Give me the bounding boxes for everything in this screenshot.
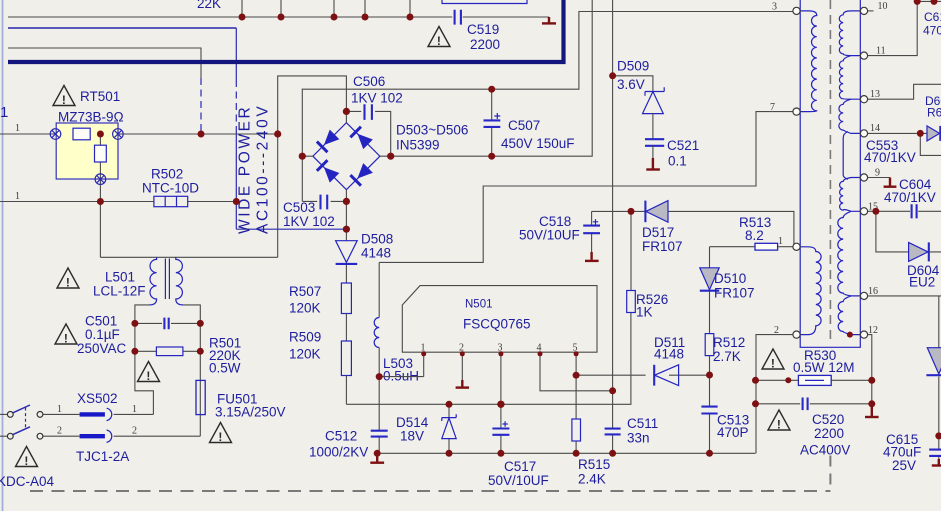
svg-text:22K: 22K (197, 0, 221, 11)
ground (C512 below GND rail) (370, 453, 384, 462)
node: pin 15 branch (872, 208, 879, 215)
inductor L503 0.5uH (374, 262, 419, 383)
node: bridge bottom / C503 (343, 198, 350, 205)
switch S1a (mains switch upper pole) (0, 405, 43, 417)
resistor R507 120K (289, 283, 351, 341)
thermistor RT501 MZ73B-9 (yellow block) (50, 89, 123, 202)
diode D517 FR107 (642, 201, 683, 254)
node: pin 14 branch (917, 130, 924, 137)
svg-text:11: 11 (876, 46, 886, 57)
pin 10 terminal with stub (860, 1, 887, 15)
node: bridge left (299, 153, 306, 160)
svg-text:25V: 25V (892, 458, 916, 473)
svg-text:D517: D517 (642, 225, 674, 240)
node: R501 row (131, 348, 138, 355)
svg-text:2.7K: 2.7K (713, 349, 741, 364)
warning triangle (switch) (16, 447, 38, 468)
wire: stub up from junction x=242 (241, 0, 243, 17)
svg-text:NTC-10D: NTC-10D (142, 181, 199, 196)
capacitor C518 50V/10UF (519, 211, 600, 257)
fuse FU501 3.15A/250V (196, 380, 286, 419)
svg-text:4148: 4148 (654, 347, 684, 362)
svg-text:C519: C519 (467, 22, 499, 37)
capacitor C520 2200 AC400V (756, 398, 872, 458)
diode D508 4148 (336, 229, 394, 283)
capacitor C506 1KV 102 (bridge snubber top) (346, 74, 402, 156)
svg-text:FSCQ0765: FSCQ0765 (463, 317, 531, 332)
svg-text:AC100---240V: AC100---240V (255, 104, 272, 234)
svg-text:9: 9 (875, 168, 880, 179)
node: GND rail junctions (374, 450, 381, 457)
capacitor C513 470P (701, 375, 749, 453)
wire: pin 11 to riser x=917.2 (868, 1, 918, 55)
node: bridge right (387, 153, 394, 160)
pin 1 of N501 (421, 343, 426, 377)
svg-text:C511: C511 (627, 416, 658, 431)
transformer secondary winding pins 16-12 (838, 296, 860, 335)
ground (IC pin 2) (456, 380, 469, 388)
node: NTC left (97, 198, 104, 205)
resistor R502 NTC-10D (142, 167, 199, 207)
wire: primary GND rail y=453.3 (377, 452, 755, 454)
warning triangle (C520) (768, 410, 790, 431)
svg-text:14: 14 (870, 123, 880, 134)
ground (C521) (646, 158, 660, 170)
transformer core dashed line (829, 0, 831, 345)
node: top rail junctions (239, 14, 246, 21)
svg-text:R509: R509 (289, 330, 321, 345)
svg-text:13: 13 (870, 89, 880, 100)
svg-text:0.1µF: 0.1µF (85, 327, 120, 342)
svg-text:3: 3 (772, 2, 777, 13)
transformer secondary winding pins 15-16 (838, 211, 861, 296)
node: D511/R512 (706, 372, 713, 379)
wire: stub up from junction x=410 (409, 0, 411, 17)
zener D514 18V (396, 404, 456, 453)
node: bridge bottom AC (343, 226, 350, 233)
wire: L501 top wire y=257.3 (100, 256, 277, 258)
svg-text:470: 470 (923, 24, 941, 38)
svg-text:D508: D508 (361, 232, 393, 247)
diode D604 EU2 (876, 211, 941, 289)
svg-text:D503~D506: D503~D506 (396, 123, 468, 138)
svg-text:C61: C61 (924, 10, 941, 24)
diode D605 (bottom right, clipped) (926, 296, 941, 436)
node: C615 top (935, 432, 941, 439)
node: top right net (914, 0, 921, 5)
net label WIDE POWER AC100---240V (rotated) (237, 104, 272, 234)
wire: pin 13 line to right edge (868, 84, 941, 99)
transformer secondary winding pins 9-15 (840, 178, 861, 212)
svg-text:2: 2 (132, 426, 137, 437)
svg-text:D510: D510 (714, 271, 746, 286)
wire: B+ rail y=89.2 from bridge left vertex riser to transformer pin 3 (302, 12, 793, 202)
svg-text:C520: C520 (812, 412, 844, 427)
node: D517 / R526 (628, 208, 635, 215)
svg-text:C521: C521 (667, 138, 699, 153)
ground (pin 9) (884, 178, 897, 187)
svg-text:450V 150uF: 450V 150uF (501, 136, 575, 151)
bridge rectifier D503~D506 IN5399 (diamond) (302, 111, 468, 229)
wire: pin 9 to ground (868, 177, 890, 179)
svg-text:WIDE POWER: WIDE POWER (237, 105, 254, 234)
node: C507 top (488, 86, 495, 93)
wire: AC drop x=277.7 down to L501 (277, 134, 279, 257)
svg-text:3.15A/250V: 3.15A/250V (215, 405, 286, 420)
svg-text:0.5W: 0.5W (209, 361, 241, 376)
svg-text:50V/10UF: 50V/10UF (488, 473, 549, 488)
transformer secondary winding pins 10-11 (839, 11, 860, 56)
svg-text:C512: C512 (325, 429, 357, 444)
pin 9 terminal (860, 168, 880, 182)
isolation boundary dashed (bottom + right corner) (30, 456, 830, 492)
wire: pin 14 line to output diode (868, 132, 927, 134)
svg-text:2200: 2200 (470, 37, 500, 52)
diode D504 (bridge top-right) (350, 127, 373, 150)
resistor R509 120K (289, 330, 351, 405)
svg-text:IN5399: IN5399 (396, 138, 440, 153)
node: winding 12 inner (847, 332, 853, 338)
capacitor C521 0.1 (645, 138, 699, 169)
svg-text:470/1KV: 470/1KV (884, 190, 936, 205)
svg-text:C517: C517 (504, 459, 536, 474)
capacitor C507 450V 150uF (484, 89, 575, 156)
pin 5 of N501 (feedback) (573, 343, 578, 376)
diode D511 4148 (654, 335, 685, 386)
node: NTC right (233, 198, 240, 205)
transformer aux winding pins 1-2 (800, 247, 821, 335)
svg-text:470P: 470P (717, 425, 749, 440)
svg-text:D509: D509 (617, 59, 649, 74)
wire: pin 10 top net line y=1.4 (917, 0, 941, 2)
pin 14 terminal (860, 123, 880, 137)
wire: pin 12 drop to ground x=871.8 (868, 335, 872, 414)
wire: top rail y=17 (to C519 and ground) (8, 16, 549, 18)
svg-text:R507: R507 (289, 284, 321, 299)
svg-text:LCL-12F: LCL-12F (93, 284, 146, 299)
node: bridge top (343, 108, 350, 115)
svg-text:2200: 2200 (814, 426, 844, 441)
pin 11 terminal (860, 46, 885, 60)
node: C507 bottom (488, 153, 495, 160)
svg-text:FR107: FR107 (642, 239, 683, 254)
svg-text:1KV 102: 1KV 102 (283, 214, 335, 229)
cut-off component box above C519 (442, 0, 527, 4)
svg-text:R515: R515 (578, 457, 610, 472)
wire: negative rail y=156.2 from bridge right vertex (391, 0, 593, 156)
pin 3 of N501 (Vcc) (498, 343, 503, 405)
svg-text:MZ73B-9Ω: MZ73B-9Ω (58, 110, 124, 125)
svg-text:10: 10 (878, 1, 888, 12)
wire: dashed/solid vertical x=236.3 down to NTC node (235, 28, 237, 80)
capacitor C604 470/1KV (868, 177, 941, 218)
ground (C615) (932, 459, 941, 466)
warning triangle (RT501) (53, 86, 75, 107)
ground (R530/C520 right) (865, 404, 879, 417)
connector XS502 pin 1 (43, 391, 153, 421)
wire: pin 2 drop to R530/C520 and GND rail corner (756, 335, 793, 454)
thick navy isolation line (8, 0, 564, 62)
transformer T501 body outline (800, 0, 860, 347)
svg-text:1: 1 (57, 404, 62, 415)
svg-text:EU2: EU2 (909, 275, 935, 290)
svg-text:1: 1 (0, 104, 8, 121)
wire: D517 output line y=211.4 (592, 211, 794, 246)
pin 3 terminal (772, 2, 800, 15)
choke L501 LCL-12F (93, 257, 183, 305)
svg-text:N501: N501 (465, 299, 493, 311)
svg-text:1: 1 (778, 236, 783, 247)
ground (C518) (585, 252, 599, 261)
svg-text:2: 2 (57, 426, 62, 437)
svg-text:C506: C506 (353, 74, 385, 89)
svg-text:120K: 120K (289, 301, 321, 316)
transformer secondary winding pins 13-14 (839, 99, 860, 133)
wire: pin 16 output line to right edge (868, 295, 941, 297)
svg-text:R512: R512 (713, 335, 745, 350)
zener D509 3.6V (613, 59, 665, 139)
diode D506 (bridge bottom-right) (350, 163, 373, 186)
ground (top, right of C519) (542, 17, 556, 23)
wire: degauss line y=48 to dashed drop x=201 (8, 48, 201, 78)
svg-text:R6: R6 (927, 106, 941, 120)
svg-text:RT501: RT501 (80, 89, 120, 104)
svg-text:470/1KV: 470/1KV (864, 150, 916, 165)
capacitor C517 50V/10UF (488, 404, 549, 488)
wire: L501 bottom-right to right column (183, 305, 200, 436)
svg-text:8.2: 8.2 (745, 228, 764, 243)
transformer primary winding pins 3-7 (800, 11, 817, 112)
op-amp/IC N501 FSCQ0765 (402, 286, 597, 353)
resistor R526 1K (627, 211, 669, 319)
node: degauss drop x=201 (198, 131, 205, 138)
svg-text:7: 7 (770, 102, 775, 113)
wire: pin7 feedback路 path to L503 (379, 112, 793, 263)
node: pin5 feedback (573, 372, 580, 379)
svg-text:4148: 4148 (361, 246, 391, 261)
svg-text:KDC-A04: KDC-A04 (0, 474, 55, 489)
svg-text:XS502: XS502 (77, 391, 118, 406)
node: RT501 tap (97, 131, 104, 138)
warning triangle (L501) (57, 268, 79, 289)
diode D505 (bridge bottom-left) (317, 160, 340, 183)
wire: AC line from NTC node to bridge bottom y=229.2 (236, 228, 346, 230)
svg-text:AC400V: AC400V (800, 443, 850, 458)
node: L503 / C512 (376, 373, 383, 380)
capacitor C553 470/1KV (label) (864, 138, 916, 165)
node: Vcc rail pin3 (497, 401, 504, 408)
svg-text:120K: 120K (289, 347, 321, 362)
svg-text:0.5W 12M: 0.5W 12M (793, 360, 855, 375)
wire: stub up from junction x=281 (280, 0, 282, 17)
node: D509 tap (609, 72, 616, 79)
wire: pin5/feedback line y=375.2 (576, 374, 709, 376)
svg-text:1: 1 (132, 404, 137, 415)
svg-text:18V: 18V (400, 429, 424, 444)
pin 15 terminal (860, 202, 878, 215)
svg-text:33n: 33n (627, 431, 650, 446)
svg-text:C503: C503 (283, 200, 315, 215)
wire: stub up from junction x=365 (364, 0, 366, 17)
wire: pin 14 branch down to edge y=155.4 (920, 133, 941, 155)
wire: L501 bottom-left to left column (135, 305, 154, 415)
wire: drop from NTC junction to L501 top (99, 202, 101, 258)
wire: NTC row y=201.5 (0, 201, 236, 203)
resistor R515 2.4K (572, 375, 610, 486)
svg-text:1K: 1K (636, 305, 653, 320)
svg-text:3.6V: 3.6V (617, 77, 645, 92)
capacitor C503 1KV 102 (bridge snubber bottom) (283, 195, 346, 229)
svg-text:2.4K: 2.4K (578, 472, 606, 487)
diode D601 (pin 14 output, clipped at edge) (925, 94, 941, 141)
diode D503 (bridge top-left) (317, 129, 340, 152)
pin 2 of N501 (to ground) (459, 343, 464, 386)
transformer secondary winding pins 11-13 (839, 56, 860, 100)
warning triangle (FU501) (210, 423, 232, 444)
wire: Vcc rail y=404.3 (R509 to R526) (346, 313, 631, 405)
resistor R530 0.5W 12M (756, 348, 872, 385)
node: pin4 sync (609, 387, 616, 394)
transformer winding tap wire 14-9 (843, 132, 848, 180)
pin 2 terminal (774, 325, 800, 338)
svg-text:0.1: 0.1 (668, 154, 687, 169)
pin 12 terminal (860, 325, 878, 338)
svg-text:FR107: FR107 (714, 286, 755, 301)
svg-text:250VAC: 250VAC (77, 341, 127, 356)
pin 1 terminal (793, 243, 800, 250)
connector XS502 pin 2 (TJC1-2A) (43, 426, 200, 465)
pin 4 of N501 (sync) (537, 343, 613, 391)
switch S1b (mains switch lower pole) (0, 427, 43, 439)
resistor R512 2.7K (705, 334, 745, 375)
wire: main AC line y=134 through RT501 (0, 133, 278, 135)
node: Vcc rail D514 (446, 401, 453, 408)
warning triangle (below R501) (138, 362, 160, 383)
svg-text:L501: L501 (105, 270, 135, 285)
pin 7 terminal (770, 102, 800, 115)
diode D510 FR107 (700, 247, 755, 334)
svg-text:1000/2KV: 1000/2KV (309, 445, 368, 460)
node: C501 row (131, 320, 138, 327)
svg-text:R502: R502 (151, 167, 183, 182)
svg-text:C507: C507 (508, 118, 540, 133)
warning triangle (C519) (428, 27, 450, 48)
net label C6../470 (clipped top right) (923, 10, 941, 38)
pin 13 terminal (860, 89, 880, 103)
pin 16 terminal (860, 286, 878, 300)
capacitor C512 1000/2KV (309, 377, 388, 460)
node: AC riser x=277.7 (274, 130, 281, 137)
wire: L503 node to IC pin 1 (379, 376, 424, 378)
svg-text:TJC1-2A: TJC1-2A (76, 449, 129, 464)
wire: degauss line y=28 to dashed drop x=236.3 (8, 27, 236, 29)
svg-text:0.5uH: 0.5uH (383, 369, 419, 384)
wire: dashed vertical x=201 (200, 78, 202, 128)
warning triangle (R530) (762, 349, 784, 370)
svg-text:1: 1 (15, 191, 20, 202)
capacitor C501 0.1uF 250VAC (77, 314, 200, 357)
capacitor C615 470uF 25V (883, 432, 941, 473)
warning triangle (C501) (55, 324, 77, 345)
svg-text:50V/10UF: 50V/10UF (519, 228, 580, 243)
resistor R513 8.2 (710, 215, 794, 250)
page edge line (left light-blue border) (2, 0, 4, 511)
capacitor C519 2200 (455, 10, 500, 52)
resistor R501 220K 0.5W (135, 336, 241, 376)
node: R530 row (752, 377, 759, 384)
switch gang link (dashed) (25, 408, 27, 430)
wire: long sense line x=612.6 (top to pin4 node) (612, 0, 614, 391)
wire: AC riser x=277.7 up to bridge top (278, 76, 347, 134)
wire: stub up from junction x=334 (333, 0, 335, 17)
capacitor C511 33n (605, 391, 659, 454)
node: C520 row (752, 400, 759, 407)
svg-text:1: 1 (15, 123, 20, 134)
node: IC pin tips (421, 351, 426, 356)
svg-text:1KV 102: 1KV 102 (351, 91, 403, 106)
